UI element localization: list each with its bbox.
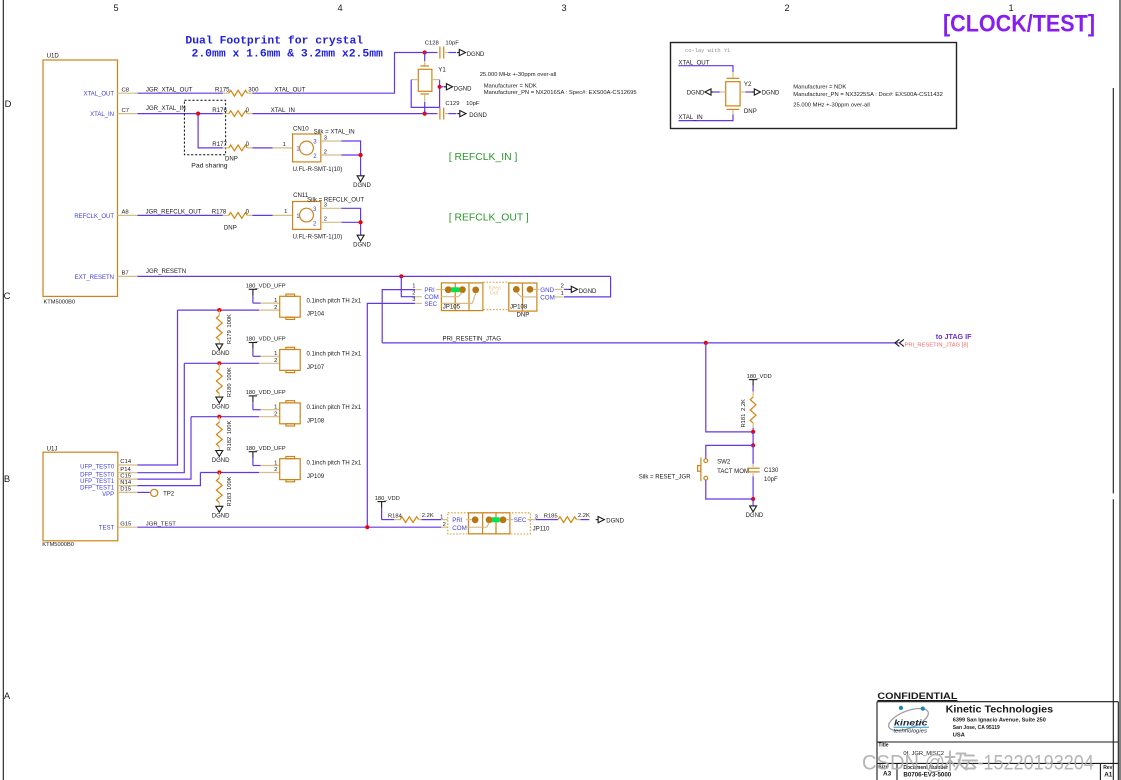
svg-text:PRI_RESETIN_JTAG: PRI_RESETIN_JTAG <box>443 336 502 343</box>
CN11 pin 3 <box>321 203 342 209</box>
column label 3 <box>561 3 566 13</box>
svg-text:SW2: SW2 <box>717 458 731 465</box>
wire XTAL_IN to R177 <box>198 114 223 148</box>
svg-text:TACT MOM: TACT MOM <box>717 468 749 475</box>
capacitor C129 10pF <box>425 101 480 119</box>
wire JP109 pin1 <box>253 460 280 466</box>
svg-text:DFP_TEST1: DFP_TEST1 <box>80 485 115 491</box>
wire VDD to R184 <box>382 519 400 521</box>
wire JP108 pin2 rail <box>191 411 280 417</box>
svg-text:1: 1 <box>284 209 287 215</box>
co-lay group box <box>671 43 957 129</box>
junction PRI_RESETIN_JTAG branch <box>704 341 708 345</box>
sheet border left line <box>2 0 4 780</box>
connector CN11 U.FL <box>293 192 365 241</box>
row label C <box>4 290 11 301</box>
svg-text:DGND: DGND <box>212 458 230 464</box>
svg-text:G15: G15 <box>120 521 132 527</box>
resistor R185 2.2K <box>543 513 590 522</box>
svg-text:R183: R183 <box>227 493 233 507</box>
svg-text:JGR_TEST: JGR_TEST <box>146 521 177 527</box>
svg-text:[CLOCK/TEST]: [CLOCK/TEST] <box>943 11 1095 38</box>
JP105 pin name SEC <box>424 301 437 308</box>
svg-text:2: 2 <box>324 149 327 155</box>
svg-text:technologies: technologies <box>894 729 928 735</box>
svg-text:JP104: JP104 <box>307 311 325 318</box>
svg-text:COM: COM <box>540 295 554 302</box>
svg-text:25.000 MHz +-30ppm over-all: 25.000 MHz +-30ppm over-all <box>793 102 870 108</box>
svg-text:D15: D15 <box>120 487 132 493</box>
svg-text:3: 3 <box>412 297 415 303</box>
svg-text:Y2: Y2 <box>744 81 752 88</box>
svg-text:D: D <box>5 98 12 109</box>
sheet title CLOCK/TEST <box>943 11 1095 38</box>
svg-text:KTM5000B0: KTM5000B0 <box>44 299 76 305</box>
power symbol 180_VDD at R181 <box>747 374 772 392</box>
note CONFIDENTIAL <box>877 691 957 702</box>
svg-text:R175: R175 <box>215 86 230 93</box>
note Y1 specs <box>480 72 637 96</box>
svg-text:4: 4 <box>337 3 342 13</box>
note Document Number <box>903 765 951 778</box>
svg-text:DFP_TEST0: DFP_TEST0 <box>80 472 115 478</box>
svg-text:A8: A8 <box>122 210 130 216</box>
svg-text:to JTAG IF: to JTAG IF <box>936 332 972 341</box>
svg-text:C8: C8 <box>122 87 130 93</box>
svg-text:1: 1 <box>283 142 286 148</box>
svg-text:3: 3 <box>324 203 327 209</box>
jumper JP105 <box>436 283 483 311</box>
svg-text:DGND: DGND <box>606 518 624 524</box>
svg-text:CN10: CN10 <box>293 126 309 133</box>
svg-text:U.FL-R-SMT-1(10): U.FL-R-SMT-1(10) <box>293 235 343 241</box>
jumper JP110 <box>448 513 550 534</box>
wire XTAL_OUT to crystal <box>253 53 425 94</box>
note co-lay with Y1 <box>685 48 730 54</box>
svg-text:JGR_XTAL_OUT: JGR_XTAL_OUT <box>146 86 193 93</box>
svg-text:JP108: JP108 <box>510 304 528 311</box>
svg-text:XTAL_IN: XTAL_IN <box>271 107 295 114</box>
wire R184 to JP110 pin1 <box>422 514 448 520</box>
junction R181 bottom <box>751 430 755 434</box>
IC U1D (KTM5000B0) <box>43 53 118 306</box>
svg-text:PRI_RESETIN_JTAG [8]: PRI_RESETIN_JTAG [8] <box>905 343 969 349</box>
power symbol DGND after C128 <box>457 49 485 58</box>
wire R177 to CN10 <box>253 142 293 148</box>
header JP108 0.1inch TH 2x1 <box>280 401 362 426</box>
svg-text:DGND: DGND <box>454 86 472 92</box>
svg-text:A: A <box>4 690 11 701</box>
power symbol 180_VDD_UFP at JP109 <box>246 446 286 466</box>
net label [ REFCLK_IN ] <box>449 152 518 163</box>
svg-text:10pF: 10pF <box>445 41 459 47</box>
svg-text:U.FL-R-SMT-1(10): U.FL-R-SMT-1(10) <box>293 167 343 173</box>
wire JP107 pin1 <box>253 351 280 357</box>
wire PRI_RESETIN_JTAG <box>382 336 898 343</box>
svg-text:TP2: TP2 <box>163 491 175 497</box>
wire R181 to C130 <box>752 432 754 446</box>
svg-text:co-lay with Y1: co-lay with Y1 <box>685 48 730 54</box>
note Size <box>878 764 891 777</box>
svg-text:5: 5 <box>113 3 118 13</box>
power symbol DGND below R183 <box>212 506 230 519</box>
svg-text:2: 2 <box>412 291 415 297</box>
svg-text:2.0mm x 1.6mm & 3.2mm x2.5mm: 2.0mm x 1.6mm & 3.2mm x2.5mm <box>192 48 384 60</box>
svg-text:XTAL_IN: XTAL_IN <box>678 114 702 121</box>
wire JP110 pin3 to R185 <box>536 514 558 520</box>
svg-text:2: 2 <box>274 305 277 311</box>
svg-text:VPP: VPP <box>102 492 114 498</box>
row label A <box>4 690 11 701</box>
svg-text:DNP: DNP <box>224 224 237 231</box>
wire JTAG branch to SW2 <box>706 343 753 432</box>
svg-text:DGND: DGND <box>212 514 230 520</box>
svg-text:2: 2 <box>274 358 277 364</box>
svg-text:DGND: DGND <box>469 113 487 119</box>
svg-text:Silk = XTAL_IN: Silk = XTAL_IN <box>314 129 355 136</box>
capacitor C130 10pF <box>747 445 779 499</box>
svg-text:100K: 100K <box>227 367 233 381</box>
svg-text:1: 1 <box>274 351 277 357</box>
wire JP109 pin2 rail <box>200 467 279 473</box>
U1J pin G15 TEST <box>99 521 138 531</box>
power symbol DGND below CN10 <box>353 176 371 189</box>
svg-text:Dual Footprint for crystal: Dual Footprint for crystal <box>185 36 363 48</box>
svg-text:JP107: JP107 <box>307 364 325 371</box>
svg-text:C14: C14 <box>120 459 132 465</box>
junction XTAL_IN node <box>423 112 427 116</box>
svg-text:JP108: JP108 <box>307 417 325 424</box>
svg-text:DGND: DGND <box>687 90 705 96</box>
svg-text:TEST: TEST <box>99 526 115 532</box>
wire JP108 pin1 <box>253 405 280 411</box>
svg-text:180_VDD_UFP: 180_VDD_UFP <box>246 337 286 343</box>
titleblock frame <box>877 702 1118 780</box>
wire Y1 case ground <box>411 80 439 108</box>
svg-text:180_VDD_UFP: 180_VDD_UFP <box>246 446 286 452</box>
svg-text:JGR_REFCLK_OUT: JGR_REFCLK_OUT <box>146 209 202 216</box>
power symbol DGND below R182 <box>212 451 230 464</box>
svg-text:PRI: PRI <box>452 517 463 524</box>
junction CN11 pin2 <box>359 220 363 224</box>
svg-text:Manufacturer_PN = NX2016SA : S: Manufacturer_PN = NX2016SA : Spec#: EXS0… <box>484 90 637 96</box>
svg-text:100K: 100K <box>227 421 233 435</box>
net label XTAL_OUT (Y2) <box>678 59 709 66</box>
junction Y1 case node <box>438 85 444 89</box>
svg-text:300: 300 <box>248 86 259 93</box>
resistor R181 2.2K <box>741 392 756 432</box>
svg-text:2: 2 <box>274 467 277 473</box>
svg-text:2: 2 <box>274 411 277 417</box>
svg-text:2.2K: 2.2K <box>741 399 747 411</box>
power symbol DGND below SW2 <box>746 506 764 519</box>
testpoint TP2 <box>151 489 175 497</box>
junction TEST branch <box>365 525 369 529</box>
svg-text:JGR_XTAL_IN: JGR_XTAL_IN <box>146 105 186 112</box>
svg-text:N14: N14 <box>120 480 132 486</box>
header JP107 0.1inch TH 2x1 <box>280 347 362 372</box>
wire JP105 pin2 COM <box>401 276 422 296</box>
connector CN10 U.FL <box>293 126 355 174</box>
power symbol DGND below R179 <box>212 344 230 357</box>
U1J pin P14 DFP_TEST0 <box>80 467 137 479</box>
svg-text:JP109: JP109 <box>307 473 325 480</box>
wire CN10 pins to ground <box>342 141 361 176</box>
svg-text:JGR_RESETN: JGR_RESETN <box>146 268 186 275</box>
svg-text:C15: C15 <box>120 473 132 479</box>
row label B <box>4 473 10 484</box>
JP105 pin name COM <box>424 294 438 301</box>
svg-text:Rev: Rev <box>1103 765 1112 771</box>
svg-text:DGND: DGND <box>762 90 780 96</box>
wire JGR_XTAL_OUT <box>138 86 223 93</box>
wire JGR_RESETN <box>138 268 611 277</box>
svg-text:Silk = RESET_JGR: Silk = RESET_JGR <box>639 475 692 481</box>
svg-text:R181: R181 <box>741 414 747 428</box>
svg-text:R179: R179 <box>227 330 233 344</box>
column label 5 <box>113 3 118 13</box>
Y2 right DGND <box>740 89 780 97</box>
jumper JP108 DNP <box>509 283 540 318</box>
svg-text:2: 2 <box>784 3 789 13</box>
junction XTAL_OUT node <box>423 50 427 54</box>
note dual footprint for crystal <box>185 36 383 61</box>
svg-text:R178: R178 <box>212 209 227 216</box>
resistor R178 0 DNP <box>212 209 253 232</box>
sheet border right inner line <box>1112 88 1114 780</box>
svg-text:Y1: Y1 <box>438 67 446 74</box>
power symbol DGND after C129 <box>457 111 487 120</box>
svg-text:25.000 MHz +-30ppm over-all: 25.000 MHz +-30ppm over-all <box>480 72 557 78</box>
note Title <box>878 743 888 749</box>
wire UFP_TEST0 bus <box>138 310 178 465</box>
header JP104 0.1inch TH 2x1 <box>280 294 362 319</box>
JP108 pin 1 COM <box>555 291 564 297</box>
wire JP104 pin1 <box>253 298 280 304</box>
svg-text:0.1inch pitch TH 2x1: 0.1inch pitch TH 2x1 <box>307 352 362 358</box>
wire UFP_TEST1 bus <box>138 417 192 479</box>
power symbol DGND after JP108 <box>569 286 597 295</box>
wire to DGND below SW2 <box>752 499 754 506</box>
svg-text:C: C <box>4 290 11 301</box>
svg-text:DGND: DGND <box>353 243 371 249</box>
svg-text:100K: 100K <box>227 476 233 490</box>
svg-text:C128: C128 <box>425 41 440 47</box>
JP108 pin 2 GND <box>555 284 570 290</box>
svg-text:KTM5000B0: KTM5000B0 <box>42 542 74 548</box>
svg-text:R180: R180 <box>227 383 233 397</box>
svg-text:DGND: DGND <box>746 513 764 519</box>
svg-text:180_VDD_UFP: 180_VDD_UFP <box>246 390 286 396</box>
CN10 pin 3 <box>321 135 342 141</box>
wire JGR_TEST <box>138 521 442 527</box>
wire EXT_RESETN to JP108 COM <box>564 276 611 297</box>
IC U1J (KTM5000B0) <box>42 446 118 548</box>
U1D pin B7 EXT_RESETN <box>75 271 138 281</box>
svg-text:0.1inch pitch TH 2x1: 0.1inch pitch TH 2x1 <box>307 461 362 467</box>
junction SW2 top <box>751 443 755 447</box>
wire JP104 pin2 rail <box>178 305 280 311</box>
U1J pin C15 UFP_TEST1 <box>80 473 137 485</box>
svg-text:Title: Title <box>878 743 888 749</box>
svg-text:C7: C7 <box>122 108 130 114</box>
U1D pin A8 REFCLK_OUT <box>74 210 137 220</box>
wire Y2 xtal_in <box>678 110 733 121</box>
svg-text:COM: COM <box>452 525 466 532</box>
crystal Y1 <box>418 53 446 114</box>
power symbol DGND below R180 <box>212 397 230 410</box>
svg-text:B: B <box>4 473 10 484</box>
svg-text:DGND: DGND <box>467 52 485 58</box>
svg-text:JP110: JP110 <box>533 526 550 533</box>
wire TEST to JP110 pin2 <box>441 522 448 528</box>
crystal Y2 DNP <box>726 78 757 115</box>
power symbol 180_VDD_UFP at JP107 <box>246 337 286 357</box>
wire to SW2 top <box>706 445 753 458</box>
note silk reset_jgr <box>639 475 692 481</box>
switch SW2 TACT MOM <box>698 458 749 482</box>
U1D pin C7 XTAL_IN <box>90 108 137 118</box>
svg-text:10pF: 10pF <box>466 101 480 107</box>
power symbol DGND at Y1 case <box>444 84 472 93</box>
svg-text:Pad sharing: Pad sharing <box>191 162 227 169</box>
svg-text:kinetic: kinetic <box>894 717 928 727</box>
note Y2 specs <box>793 84 943 108</box>
svg-text:U1D: U1D <box>47 53 60 60</box>
resistor R176 0 <box>212 107 252 117</box>
svg-text:DGND: DGND <box>579 289 597 295</box>
column label 2 <box>784 3 789 13</box>
note pad sharing <box>191 162 227 169</box>
svg-text:JP105: JP105 <box>443 304 461 311</box>
junction R180 top <box>217 361 221 365</box>
wire R178 to CN11 <box>253 209 293 216</box>
wire JP105 pin1 PRI <box>382 283 422 343</box>
svg-text:SEC: SEC <box>514 517 527 524</box>
CN10 pin 2 <box>321 149 342 155</box>
note Rev <box>1103 765 1113 778</box>
svg-text:2.2K: 2.2K <box>422 513 434 519</box>
wire JGR_REFCLK_OUT <box>138 209 223 216</box>
svg-text:PRI: PRI <box>424 287 435 294</box>
resistor R184 2.2K <box>388 513 434 522</box>
svg-text:180_VDD: 180_VDD <box>747 374 772 380</box>
junction R182 top <box>217 415 221 419</box>
net label PRI_RESETIN_JTAG [8] <box>905 343 969 349</box>
svg-text:XTAL_OUT: XTAL_OUT <box>83 92 114 98</box>
net label [ REFCLK_OUT ] <box>449 213 529 224</box>
svg-text:Manufacturer = NDK: Manufacturer = NDK <box>793 84 846 90</box>
svg-text:P14: P14 <box>120 467 131 473</box>
wire JGR_XTAL_IN <box>138 105 223 114</box>
net label XTAL_IN (Y2) <box>678 114 702 121</box>
svg-text:R185: R185 <box>544 514 558 520</box>
svg-text:Silk = REFCLK_OUT: Silk = REFCLK_OUT <box>307 196 364 203</box>
svg-text:1: 1 <box>561 291 564 297</box>
svg-text:[ REFCLK_IN ]: [ REFCLK_IN ] <box>449 152 518 163</box>
svg-text:Manufacturer = NDK: Manufacturer = NDK <box>484 83 537 89</box>
power symbol DGND below CN11 <box>353 235 371 248</box>
svg-text:6399 San Ignacio Avenue, Suite: 6399 San Ignacio Avenue, Suite 250 <box>953 717 1046 723</box>
svg-text:UFP_TEST0: UFP_TEST0 <box>80 465 115 471</box>
svg-text:0.1inch pitch TH 2x1: 0.1inch pitch TH 2x1 <box>307 298 362 304</box>
svg-text:CSDN @: CSDN @ <box>862 752 945 775</box>
watermark CSDN <box>862 752 1094 775</box>
JP105 pin name PRI <box>424 287 435 294</box>
capacitor C128 10pF <box>425 41 460 59</box>
pad sharing dashed box <box>184 100 225 155</box>
note address <box>953 717 1046 738</box>
svg-text:U1J: U1J <box>47 446 58 453</box>
column label 4 <box>337 3 342 13</box>
JP110 pin 3 <box>530 514 538 520</box>
power symbol 180_VDD_UFP at JP108 <box>246 390 286 410</box>
svg-text:USA: USA <box>953 732 965 738</box>
wire VPP to TP2 <box>138 491 150 493</box>
svg-text:Manufacturer_PN = NX3225SA : D: Manufacturer_PN = NX3225SA : Doc#: EXS00… <box>793 92 943 98</box>
svg-text:1: 1 <box>274 298 277 304</box>
U1J pin D15 VPP <box>102 487 137 499</box>
svg-text:R177: R177 <box>212 141 227 148</box>
svg-text:R182: R182 <box>227 437 233 451</box>
logo kinetic technologies <box>886 704 931 735</box>
power symbol 180_VDD_UFP at JP104 <box>246 284 286 304</box>
keep out zone <box>483 282 509 309</box>
svg-text:1: 1 <box>274 405 277 411</box>
svg-text:3: 3 <box>324 135 327 141</box>
resistor R182 100K <box>216 417 232 451</box>
junction SW2/C130 bottom <box>751 497 755 501</box>
svg-text:180_VDD_UFP: 180_VDD_UFP <box>246 284 286 290</box>
svg-text:DNP: DNP <box>517 311 530 318</box>
power symbol 180_VDD at R184 <box>375 496 400 520</box>
svg-text:B7: B7 <box>122 271 129 277</box>
svg-text:[ REFCLK_OUT ]: [ REFCLK_OUT ] <box>449 213 529 224</box>
wire JP105 pin3 SEC <box>367 297 422 527</box>
svg-text:REFCLK_OUT: REFCLK_OUT <box>74 214 114 220</box>
svg-text:UFP_TEST1: UFP_TEST1 <box>80 479 115 485</box>
resistor R177 0 DNP <box>212 141 252 162</box>
junction R183 top <box>217 470 221 474</box>
svg-text:Kinetic Technologies: Kinetic Technologies <box>946 704 1054 715</box>
svg-text:-15220193204: -15220193204 <box>977 752 1094 775</box>
svg-text:XTAL_IN: XTAL_IN <box>90 112 114 118</box>
svg-text:DGND: DGND <box>212 351 230 357</box>
svg-text:10pF: 10pF <box>764 477 778 483</box>
svg-text:C129: C129 <box>445 101 459 107</box>
resistor R179 100K <box>216 310 232 344</box>
svg-text:EXT_RESETN: EXT_RESETN <box>75 275 114 281</box>
resistor R180 100K <box>216 363 232 397</box>
junction CN10 pin2 <box>359 153 363 157</box>
svg-text:0.1inch pitch TH 2x1: 0.1inch pitch TH 2x1 <box>307 405 362 411</box>
wire SW2 bottom <box>706 480 753 499</box>
JP108 pin name GND <box>540 287 554 294</box>
junction XTAL_IN branch <box>196 112 200 116</box>
svg-text:A1: A1 <box>1104 771 1113 778</box>
row label D <box>5 98 12 109</box>
U1D pin C8 XTAL_OUT <box>83 87 137 97</box>
svg-text:C130: C130 <box>764 468 779 474</box>
Y2 left DGND <box>687 89 726 97</box>
svg-text:Out: Out <box>490 291 499 297</box>
wire DFP_TEST1 bus <box>138 473 201 486</box>
svg-text:1: 1 <box>274 460 277 466</box>
column label 1 <box>1008 3 1013 13</box>
offpage connector to JTAG <box>895 339 904 346</box>
JP108 pin name COM <box>540 295 554 302</box>
svg-text:2: 2 <box>324 217 327 223</box>
